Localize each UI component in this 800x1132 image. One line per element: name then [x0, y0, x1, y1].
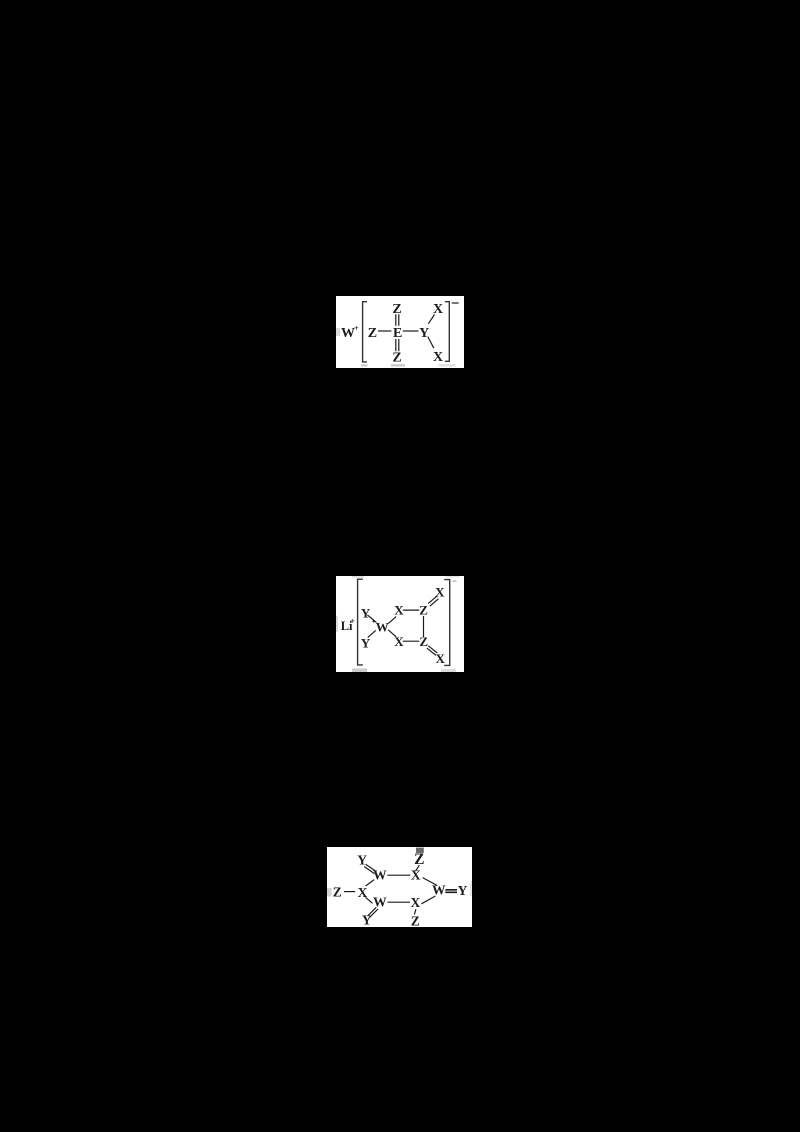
bond X-Z bottom: [414, 909, 416, 914]
svg-text:X: X: [433, 302, 443, 317]
double bond W=Y right: [445, 890, 457, 893]
svg-text:Z: Z: [392, 302, 401, 317]
svg-text:+: +: [354, 323, 359, 333]
svg-text:E: E: [393, 326, 402, 341]
svg-text:Z: Z: [392, 351, 401, 366]
faint left-edge artifact: [336, 328, 340, 336]
svg-text:Y: Y: [362, 913, 372, 927]
bond X-W right upper: [423, 878, 438, 886]
bond E-Y: [403, 330, 419, 332]
svg-text:Y: Y: [361, 606, 371, 621]
bond Y-X upper: [428, 314, 434, 323]
bond X-W lower-left diagonal: [366, 897, 373, 903]
bond W-X upper: [388, 617, 396, 624]
bond Z-X left: [344, 891, 355, 893]
svg-text:X: X: [435, 584, 445, 599]
svg-text:Y: Y: [419, 326, 429, 341]
svg-text:X: X: [436, 651, 446, 666]
double bond Z=X lower diagonal: [427, 646, 437, 656]
svg-text:Y: Y: [361, 636, 371, 651]
bond X-Z upper: [403, 609, 420, 611]
faint left-edge artifact: [327, 888, 332, 897]
left bracket: [363, 302, 367, 362]
panel 1: anion structure W+[Z=E(Z)(=Z)-Y(X)(X)]-: [336, 296, 464, 368]
superscript minus charge: [452, 302, 459, 304]
svg-text:Y: Y: [357, 852, 367, 867]
svg-text:W: W: [373, 868, 387, 883]
svg-text:W: W: [376, 620, 389, 635]
faint top-edge artifact: [352, 576, 364, 578]
double bond Z=X upper diagonal: [428, 596, 438, 606]
bond Y-W lower: [368, 630, 376, 637]
faint right-edge artifact: [470, 881, 472, 896]
svg-text:Z: Z: [368, 326, 377, 341]
svg-text:Z: Z: [333, 884, 342, 899]
svg-text:W: W: [373, 895, 387, 910]
svg-text:Z: Z: [419, 602, 428, 617]
bond Z-E: [378, 330, 391, 332]
svg-text:X: X: [411, 895, 421, 910]
bond W-X top: [387, 874, 410, 876]
faint bottom-edge artifacts: [361, 364, 368, 366]
right bracket: [444, 580, 450, 666]
scan dot near W: [373, 620, 375, 622]
bond X-W bottom: [388, 901, 411, 903]
left bracket: [358, 579, 363, 665]
svg-text:X: X: [433, 350, 443, 365]
svg-text:Z: Z: [411, 914, 420, 928]
dark grey scan square above top Z: [416, 848, 424, 853]
svg-text:Z: Z: [419, 634, 428, 649]
double bond E=Z top: [396, 314, 399, 325]
faint bottom-edge artifacts: [352, 669, 367, 673]
svg-text:X: X: [394, 602, 404, 617]
svg-text:Y: Y: [458, 883, 468, 898]
bond Z-X top diagonal: [415, 865, 419, 871]
bond Z-Z vertical: [423, 616, 425, 637]
bond Y-W upper: [368, 615, 377, 623]
double bond Y=W top-left: [364, 864, 376, 874]
svg-text:W: W: [341, 326, 355, 341]
right bracket: [445, 302, 449, 362]
svg-text:+: +: [350, 617, 355, 626]
svg-text:W: W: [432, 883, 446, 898]
bond X-Z lower: [403, 640, 420, 642]
bond Y-X lower: [428, 337, 434, 349]
double bond W=Y bottom-left: [368, 907, 378, 917]
bond X-W upper-left: [366, 880, 375, 886]
svg-text:X: X: [394, 634, 404, 649]
superscript minus charge (faint): [453, 580, 457, 582]
bond W-X lower: [388, 630, 396, 637]
double bond E=Z bottom: [396, 339, 399, 351]
faint left-edge artifact: [336, 616, 338, 632]
bond W-X right lower: [421, 896, 435, 904]
panel 2: lithium chelate Li+[Y2W(X-Z(=X))2]-: [336, 576, 464, 672]
panel 3: six-membered ring (WX)3 with Y,Z substituents: [327, 847, 472, 927]
